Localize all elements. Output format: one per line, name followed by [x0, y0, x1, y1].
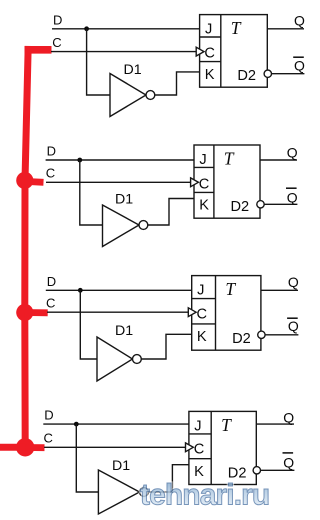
wire inverter output to K input (stage 1) — [155, 72, 200, 95]
U3 J/C cell divider — [192, 298, 216, 300]
wire Q output (stage 1) — [267, 28, 304, 30]
wire C to clock input (stage 4) — [44, 446, 185, 448]
svg-text:D: D — [47, 144, 56, 159]
wire Q-bar output (stage 3) — [265, 334, 298, 336]
svg-text:Q: Q — [288, 274, 299, 290]
inverter D1 triangle (stage 4) — [98, 470, 139, 514]
svg-text:D: D — [44, 408, 53, 423]
clock bus junction node section 2 — [16, 172, 33, 189]
svg-text:T: T — [231, 18, 242, 38]
clock edge arrow at C input (stage 2) — [191, 178, 199, 187]
svg-text:D2: D2 — [231, 199, 250, 215]
svg-text:C: C — [52, 35, 61, 50]
wire Q output (stage 2) — [260, 159, 297, 161]
junction on D wire (stage 1) — [84, 26, 89, 31]
wire D to J input (stage 1) — [52, 28, 200, 30]
svg-text:J: J — [205, 22, 212, 38]
svg-text:D2: D2 — [232, 331, 251, 347]
clock bus C (red) top corner horizontal — [25, 46, 52, 54]
svg-text:K: K — [199, 198, 209, 214]
inverter D1 output bubble (stage 2) — [139, 221, 148, 230]
U3 input-column divider — [215, 276, 217, 351]
wire inverter output to K input (stage 3) — [141, 334, 191, 359]
svg-text:D: D — [47, 274, 56, 289]
JK flip-flop U4 body (T / D2) — [189, 411, 256, 484]
svg-text:D: D — [53, 12, 62, 27]
overline of Q-bar (stage 4) — [283, 452, 294, 454]
U1 C/K cell divider — [200, 61, 221, 63]
overline of Q-bar (stage 3) — [287, 317, 298, 319]
inverted output bubble (stage 1) — [264, 70, 271, 77]
U4 C/K cell divider — [189, 458, 211, 460]
inverted output bubble (stage 4) — [253, 467, 260, 474]
svg-text:C: C — [46, 166, 55, 181]
U4 J/C cell divider — [189, 433, 211, 435]
svg-text:C: C — [44, 431, 53, 446]
wire D to J input (stage 4) — [43, 423, 189, 425]
clock bus junction node section 4 — [16, 438, 34, 456]
wire Q output (stage 3) — [261, 289, 298, 291]
JK flip-flop U2 body (T / D2) — [194, 145, 260, 218]
clock edge arrow at C input (stage 1) — [196, 47, 204, 56]
overline of Q-bar (stage 2) — [286, 187, 297, 189]
svg-text:T: T — [221, 415, 232, 435]
U4 input-column divider — [210, 411, 212, 484]
clock bus C (red) vertical trunk — [25, 46, 28, 447]
wire D branch down to inverter D1 (stage 4) — [76, 424, 98, 492]
svg-text:D1: D1 — [115, 323, 133, 339]
wire D branch down to inverter D1 (stage 3) — [80, 290, 97, 359]
U2 C/K cell divider — [194, 191, 214, 193]
wire Q-bar output (stage 1) — [272, 73, 305, 75]
wire inverter output to K input (stage 4) — [148, 465, 189, 492]
clock edge arrow at C input (stage 4) — [186, 443, 194, 452]
wire D to J input (stage 3) — [46, 289, 192, 291]
wire D to J input (stage 2) — [46, 159, 194, 161]
inverter D1 output bubble (stage 1) — [146, 91, 155, 100]
svg-text:Q: Q — [283, 454, 294, 470]
svg-text:K: K — [205, 67, 215, 83]
inverter D1 output bubble (stage 3) — [133, 355, 142, 364]
svg-text:K: K — [194, 464, 204, 480]
svg-text:C: C — [204, 46, 215, 62]
wire D branch down to inverter D1 (stage 1) — [87, 29, 110, 95]
clock bus exit to left edge — [0, 444, 25, 451]
inverter D1 output bubble (stage 4) — [140, 488, 149, 497]
clock bus stub to C4 — [25, 444, 44, 451]
wire D branch down to inverter D1 (stage 2) — [80, 160, 103, 225]
svg-text:J: J — [199, 152, 206, 168]
wire C to clock input (stage 1) — [51, 51, 196, 53]
wire Q output (stage 4) — [256, 423, 294, 425]
svg-text:C: C — [46, 296, 55, 311]
inverter D1 triangle (stage 3) — [97, 337, 133, 381]
svg-text:Q: Q — [283, 409, 294, 425]
JK flip-flop U1 body (T / D2) — [200, 15, 268, 88]
inverter D1 triangle (stage 1) — [110, 74, 146, 117]
overline of Q-bar (stage 1) — [293, 56, 304, 58]
wire C to clock input (stage 2) — [46, 181, 190, 183]
wire C to clock input (stage 3) — [47, 311, 188, 313]
svg-text:Q: Q — [288, 318, 299, 334]
svg-text:J: J — [197, 283, 204, 299]
inverter D1 triangle (stage 2) — [103, 205, 140, 247]
svg-text:J: J — [194, 419, 201, 435]
inverted output bubble (stage 2) — [257, 201, 264, 208]
wire Q-bar output (stage 4) — [261, 469, 295, 471]
svg-text:Q: Q — [287, 144, 298, 160]
svg-text:D2: D2 — [237, 68, 256, 84]
svg-text:T: T — [224, 149, 235, 169]
U3 C/K cell divider — [192, 323, 216, 325]
wire Q-bar output (stage 2) — [264, 203, 297, 205]
clock bus stub to C2 — [25, 178, 44, 186]
svg-text:D1: D1 — [112, 458, 130, 474]
svg-text:K: K — [197, 329, 207, 345]
inverted output bubble (stage 3) — [258, 331, 265, 338]
watermark tehnari.ru — [140, 479, 269, 512]
wire inverter output to K input (stage 2) — [148, 199, 194, 226]
svg-text:C: C — [194, 441, 205, 457]
svg-text:Q: Q — [287, 190, 298, 206]
clock edge arrow at C input (stage 3) — [188, 308, 196, 317]
svg-text:D1: D1 — [124, 62, 142, 78]
junction on D wire (stage 3) — [78, 288, 83, 293]
svg-text:tehnari.ru: tehnari.ru — [140, 479, 269, 512]
svg-text:D1: D1 — [115, 192, 133, 208]
U2 input-column divider — [213, 145, 215, 218]
svg-text:T: T — [225, 279, 236, 299]
svg-text:C: C — [197, 306, 208, 322]
JK flip-flop U3 body (T / D2) — [192, 276, 261, 351]
junction on D wire (stage 4) — [74, 422, 79, 427]
svg-text:Q: Q — [294, 13, 305, 29]
svg-text:Q: Q — [294, 57, 305, 73]
U1 input-column divider — [220, 15, 222, 88]
clock bus junction node section 3 — [16, 304, 33, 321]
junction on D wire (stage 2) — [77, 158, 82, 163]
svg-text:C: C — [199, 176, 210, 192]
U2 J/C cell divider — [194, 166, 214, 168]
clock bus stub to C3 — [25, 309, 48, 316]
U1 J/C cell divider — [200, 36, 221, 38]
